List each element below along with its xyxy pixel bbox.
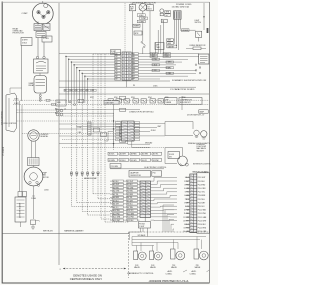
main control aux box — [152, 171, 162, 176]
wire tags lower harness — [94, 128, 107, 137]
svg-text:-0001003 PRINTED IN U.S.A.: -0001003 PRINTED IN U.S.A. — [149, 279, 190, 283]
defrost heater — [15, 197, 26, 227]
wires connector P2 to valves — [163, 205, 174, 232]
connector P2 right tags — [198, 177, 207, 233]
bottom print line — [149, 279, 190, 283]
cold control thermostat — [3, 93, 16, 132]
row extra items — [69, 99, 84, 105]
fresh food light circuit — [165, 96, 210, 145]
row labels — [90, 97, 186, 99]
svg-text:FREEZER: FREEZER — [197, 144, 206, 146]
power wires drop right — [156, 20, 164, 54]
main control board box — [129, 171, 151, 178]
svg-text:5 BLK: 5 BLK — [22, 42, 28, 44]
svg-text:COND.: COND. — [190, 274, 197, 276]
wire tag 4 BLK — [137, 14, 145, 17]
PTC routing wires — [132, 234, 206, 251]
row switch boxes — [56, 98, 202, 106]
connector P2 tag stub wires — [186, 177, 190, 231]
freezer light circuit — [165, 148, 188, 167]
evaporator fan motor M2 — [24, 166, 49, 186]
right border inner tick — [207, 28, 209, 33]
bus junction dots — [65, 56, 88, 80]
wire terminals right — [195, 64, 201, 74]
svg-text:WHITE-GR: WHITE-GR — [43, 231, 53, 233]
wire thermostat bus 116 — [59, 115, 114, 117]
terminal strip right tags — [132, 53, 138, 81]
aux condenser label 2 — [190, 270, 210, 276]
connector P4 box — [139, 218, 151, 229]
power cord plug — [174, 11, 182, 19]
freezer light labels — [193, 144, 211, 166]
right box 7 — [155, 43, 164, 50]
defrost timer box — [133, 24, 140, 27]
wires P12 to P2 — [151, 177, 178, 220]
light switch S1 — [196, 31, 202, 41]
solenoid valve V3 — [171, 249, 185, 269]
legend dashed line — [60, 268, 127, 271]
connector P12 mid tags — [127, 180, 138, 222]
inline connectors on harness — [70, 172, 99, 175]
mid wire labels right of strip — [150, 53, 174, 75]
condenser fan motor label — [131, 1, 157, 4]
svg-text:COLD CONTROL: COLD CONTROL — [3, 123, 16, 125]
wire color tags row — [64, 89, 96, 92]
compressor motor M1 — [22, 1, 54, 24]
connector P2 left tags — [183, 177, 190, 233]
svg-text:LT. GREEN: LT. GREEN — [3, 146, 5, 156]
line cord right drop — [195, 3, 205, 30]
left elbow wire — [104, 132, 114, 142]
svg-text:FIXED RESISTOR: FIXED RESISTOR — [190, 45, 206, 47]
connector P2 outer box — [197, 173, 210, 233]
solenoid valve V4 — [194, 249, 208, 269]
defrost timer box 2 — [134, 31, 142, 35]
svg-text:INTERIOR LIGHTS: INTERIOR LIGHTS — [193, 164, 211, 166]
dashed guide top — [93, 3, 125, 54]
harness evap label — [84, 177, 97, 180]
wire compressor to relay — [22, 22, 45, 102]
vertical wire 113 — [113, 104, 114, 148]
wire tag 5 WHT — [140, 17, 148, 20]
condenser fan motor M3 — [139, 4, 147, 12]
connector P12 left tags — [113, 180, 124, 222]
solenoid valve V2 — [150, 251, 163, 269]
banner electronic control — [110, 167, 166, 169]
label box P13 — [110, 164, 121, 169]
fixed resistor label — [186, 45, 206, 50]
harness verticals lower — [71, 54, 105, 222]
wire label row 1 — [108, 152, 162, 155]
strip wires left — [59, 54, 115, 79]
wire label row 2 — [108, 158, 162, 161]
svg-text:COMP: COMP — [22, 13, 29, 15]
svg-text:SOCKET: SOCKET — [197, 150, 205, 152]
connector P5 body — [122, 121, 135, 141]
strip wires right — [138, 54, 199, 79]
defrost thermostat — [28, 130, 49, 141]
lower mid dashed wires — [59, 127, 165, 148]
fan aux terminal — [37, 184, 49, 191]
svg-text:LIGHT 40W: LIGHT 40W — [197, 146, 207, 148]
wire fan to heater — [32, 186, 35, 219]
bus label 8GRY — [104, 101, 119, 105]
aux relay box — [161, 19, 167, 23]
run capacitor line — [59, 85, 196, 91]
left tag column boxes — [120, 96, 126, 142]
solenoid valve V1 — [134, 251, 147, 269]
PTC panel dashed border — [129, 232, 210, 278]
ground labels left — [165, 11, 171, 17]
thermostat feed wires — [10, 88, 60, 113]
legend text — [70, 273, 102, 281]
compressor overload protector OL — [34, 24, 50, 38]
terminal box T1 — [21, 38, 32, 46]
svg-text:PROTECTOR: PROTECTOR — [13, 33, 25, 35]
condenser fan wires — [133, 3, 151, 54]
connector P12 bottom drop — [130, 228, 148, 240]
main board title — [193, 171, 210, 174]
neutral line — [59, 93, 209, 95]
terminal strip left tags — [115, 53, 121, 81]
aux capacitor symbol — [160, 9, 164, 16]
divider line bottom left — [3, 233, 130, 235]
PTC panel label — [127, 272, 154, 275]
strip bottom drop wire — [126, 80, 128, 87]
schematic note line — [59, 79, 207, 82]
svg-text:POWER CORD: POWER CORD — [176, 4, 192, 6]
harness verticals center — [66, 56, 88, 103]
svg-text:DOOR SWITCH - LT: DOOR SWITCH - LT — [187, 114, 205, 116]
wire thermostat down — [19, 101, 35, 192]
connector P12 tag stub wires — [110, 181, 140, 220]
ground clip — [31, 220, 41, 229]
wire tag 6 ORN — [137, 20, 145, 23]
connector P2 body — [190, 174, 197, 233]
connector P5 exits right — [134, 124, 165, 136]
label box left of strip — [111, 50, 121, 56]
aux condenser label 1 — [166, 270, 188, 276]
connector J4 circles — [55, 108, 66, 116]
mid wires to connector — [17, 110, 155, 150]
connector P5 exits bottom — [128, 141, 153, 147]
timer cam switch — [141, 23, 146, 54]
vertical tag P8 — [88, 122, 91, 135]
relay board box right — [199, 54, 210, 64]
power cord label — [172, 4, 192, 8]
left vertical label 2 — [3, 146, 5, 156]
wire tag ORG-W — [180, 29, 195, 32]
condenser fan aux box — [147, 5, 154, 11]
start relay RL1 — [29, 56, 49, 87]
harness elbows to control board — [71, 194, 129, 222]
cold control vertical label — [2, 111, 4, 125]
evap fan connector — [28, 158, 40, 166]
svg-text:COND.: COND. — [166, 274, 173, 276]
svg-text:6 WHT: 6 WHT — [22, 40, 28, 42]
harness trunk wire — [58, 3, 60, 265]
run capacitor C1 — [34, 73, 47, 93]
capacitor terminals — [39, 93, 41, 101]
border frame — [2, 2, 210, 284]
legend text cabinet — [43, 230, 84, 233]
terminal strip P1 body — [122, 52, 131, 80]
ground cluster — [167, 39, 177, 49]
terminal box T2 — [42, 36, 52, 42]
condenser fan run winding box — [129, 5, 135, 11]
svg-text:COLD CONTROL: COLD CONTROL — [2, 111, 4, 125]
compressor label block — [13, 28, 25, 35]
svg-text:DEFROST: DEFROST — [41, 134, 49, 136]
connector P5 side tags — [116, 122, 140, 141]
svg-text:2 ORN: 2 ORN — [43, 38, 49, 40]
power cord wires — [174, 19, 180, 50]
connector P12 body — [140, 181, 151, 218]
svg-text:ELECTRONIC CONTROL: ELECTRONIC CONTROL — [145, 167, 167, 169]
component row bus — [13, 99, 209, 106]
defrost heater connector — [18, 192, 37, 201]
